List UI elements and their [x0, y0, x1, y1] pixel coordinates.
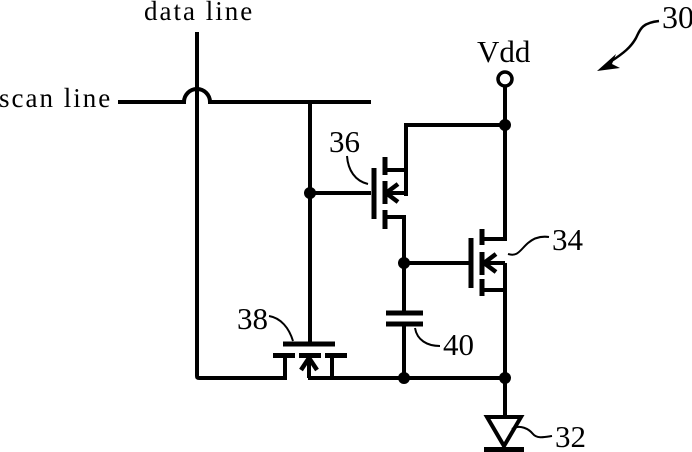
transistor 34: [471, 229, 505, 296]
svg-text:32: 32: [555, 419, 586, 452]
leader 34: [508, 237, 549, 255]
node B: [499, 119, 511, 131]
wire node A to transistor 36 gate: [310, 191, 371, 195]
wire node C gate wire to 34: [404, 261, 469, 265]
arrow 30: [597, 21, 659, 71]
svg-text:34: 34: [552, 222, 584, 257]
wire node A down to 38 gate: [308, 193, 312, 342]
node C: [398, 257, 410, 269]
svg-text:38: 38: [237, 301, 268, 336]
svg-text:data line: data line: [144, 0, 254, 26]
svg-text:scan line: scan line: [0, 83, 112, 113]
leader 32: [512, 427, 552, 437]
node E: [499, 372, 511, 384]
svg-text:36: 36: [329, 124, 360, 159]
wire Vdd rail down to transistor 34 drain: [503, 86, 507, 241]
svg-text:30: 30: [662, 0, 692, 35]
wire 34 source down to node E: [503, 263, 507, 378]
wire scan drop to node A: [308, 102, 312, 193]
wire scan line with hop over data line: [118, 89, 371, 102]
svg-text:Vdd: Vdd: [477, 34, 531, 69]
transistor 38: [273, 344, 347, 378]
leader 40: [415, 328, 440, 346]
wire 36 drain up to top rail: [406, 125, 505, 168]
Vdd terminal circle: [498, 72, 512, 86]
transistor 36: [374, 157, 406, 263]
leader 36: [347, 156, 368, 184]
svg-text:40: 40: [443, 327, 474, 362]
capacitor 40: [386, 263, 423, 378]
LED 32: [484, 378, 524, 450]
node A: [304, 187, 316, 199]
leader 38: [269, 316, 293, 341]
wire bottom-left (data line to transistor 38 left lead): [197, 372, 287, 378]
wire data line vertical: [195, 32, 199, 376]
wire bottom-right (38 to node E): [308, 376, 505, 380]
node D: [398, 372, 410, 384]
